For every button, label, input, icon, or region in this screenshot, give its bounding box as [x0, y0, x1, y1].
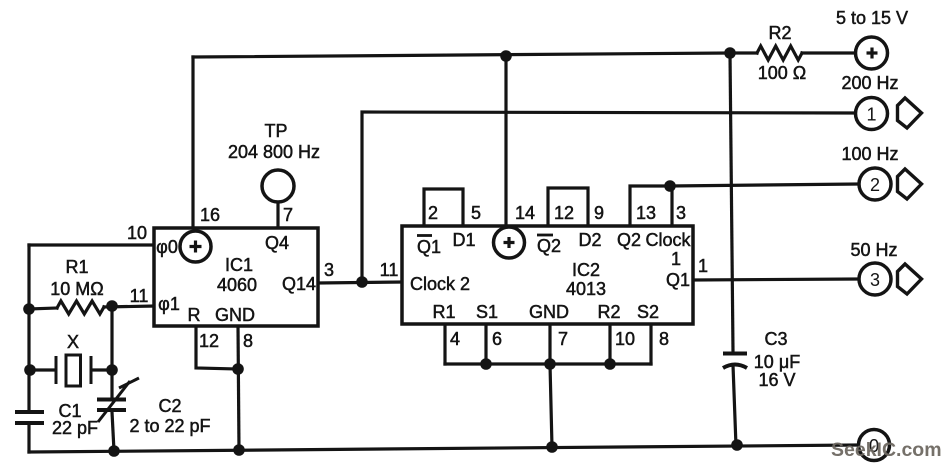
- svg-text:φ1: φ1: [158, 294, 180, 314]
- svg-text:14: 14: [515, 203, 535, 223]
- junction R1 left: [23, 303, 35, 315]
- svg-text:9: 9: [594, 203, 604, 223]
- svg-text:SeekIC.com: SeekIC.com: [831, 439, 942, 461]
- arrow output 2: [898, 169, 922, 199]
- junction R1 right: [106, 300, 118, 312]
- svg-text:11: 11: [380, 260, 399, 280]
- svg-text:R2: R2: [768, 23, 791, 43]
- IC2 plus terminal circle: [494, 227, 525, 258]
- svg-text:12: 12: [554, 203, 574, 223]
- wire IC2 pin10: [608, 324, 611, 364]
- svg-text:4: 4: [450, 329, 460, 349]
- wire IC1 pin12 to pin8: [196, 326, 238, 369]
- svg-text:50 Hz: 50 Hz: [850, 240, 897, 260]
- wire IC1 pin10: [29, 243, 154, 246]
- junction sub-bus pin7: [544, 358, 556, 370]
- wire Q1 output to 50Hz terminal 3: [693, 279, 858, 280]
- capacitor C3: [723, 354, 747, 369]
- svg-text:7: 7: [283, 205, 293, 225]
- svg-text:S2: S2: [637, 302, 659, 322]
- svg-text:12: 12: [199, 331, 219, 351]
- svg-text:R2: R2: [597, 302, 620, 322]
- crystal X: [56, 355, 91, 386]
- svg-text:5: 5: [471, 203, 481, 223]
- svg-text:C2: C2: [158, 396, 181, 416]
- wire feedback vertical upper (R1 to C2): [110, 306, 113, 397]
- op IC2 4013 box: [402, 226, 693, 324]
- svg-text:Q2: Q2: [537, 236, 561, 256]
- wire bottom ground bus: [29, 445, 858, 452]
- junction crystal left: [24, 364, 36, 376]
- wire IC2 loop pins 12-9: [548, 188, 588, 226]
- resistor R2: [757, 46, 802, 60]
- svg-text:GND: GND: [215, 305, 255, 325]
- wire R1 left lead: [29, 308, 57, 309]
- junction crystal right: [106, 364, 118, 376]
- junction pin12/pin8: [232, 363, 244, 375]
- wire IC2 pin7 to ground bus: [550, 364, 552, 447]
- wire IC2 loop pins 13-3: [630, 186, 672, 226]
- arrow output 3: [898, 264, 922, 294]
- svg-text:IC1: IC1: [225, 255, 253, 275]
- svg-text:16: 16: [200, 205, 220, 225]
- svg-text:D1: D1: [452, 230, 475, 250]
- svg-text:1: 1: [671, 249, 681, 269]
- output terminal 2: [859, 168, 891, 200]
- svg-text:IC2: IC2: [572, 260, 600, 280]
- svg-text:8: 8: [659, 329, 669, 349]
- svg-text:2: 2: [428, 203, 438, 223]
- junction supply/R2: [724, 47, 736, 59]
- svg-text:13: 13: [636, 203, 656, 223]
- svg-text:2 to 22 pF: 2 to 22 pF: [129, 416, 210, 436]
- wire IC2 pin6: [484, 324, 487, 364]
- svg-text:8: 8: [243, 331, 253, 351]
- svg-text:3: 3: [676, 203, 686, 223]
- svg-text:11: 11: [130, 286, 149, 306]
- svg-text:TP: TP: [264, 121, 287, 141]
- svg-text:X: X: [67, 332, 79, 352]
- wire IC1 pin16 vertical: [191, 57, 194, 229]
- svg-text:200 Hz: 200 Hz: [841, 73, 898, 93]
- svg-text:1: 1: [698, 256, 708, 276]
- svg-text:R1: R1: [65, 257, 88, 277]
- svg-text:4060: 4060: [217, 275, 257, 295]
- svg-text:204 800 Hz: 204 800 Hz: [228, 142, 320, 162]
- svg-text:1: 1: [866, 105, 876, 125]
- wire feedback vertical lower (C2 to bus): [112, 412, 114, 451]
- wire IC2 pin4: [443, 324, 446, 364]
- svg-text:Clock: Clock: [645, 230, 691, 250]
- svg-text:2: 2: [870, 175, 880, 195]
- wire Q14 to 200Hz terminal 1: [362, 112, 855, 282]
- wire IC1 pin8 ground vertical: [238, 326, 239, 450]
- svg-text:R: R: [188, 305, 201, 325]
- wire left vertical upper: [27, 245, 30, 410]
- svg-text:D2: D2: [578, 230, 601, 250]
- svg-text:Q14: Q14: [282, 274, 316, 294]
- junction sub-bus pin6: [480, 358, 492, 370]
- svg-text:Q1: Q1: [417, 237, 441, 257]
- svg-text:R1: R1: [432, 302, 455, 322]
- svg-text:Q4: Q4: [265, 233, 289, 253]
- test point TP circle: [262, 170, 294, 202]
- junction supply/pin14: [500, 50, 512, 62]
- junction 100Hz tap: [664, 180, 676, 192]
- wire R1 right lead to IC1 pin11: [104, 306, 154, 307]
- svg-text:C3: C3: [764, 329, 787, 349]
- svg-text:10 MΩ: 10 MΩ: [50, 279, 103, 299]
- wire IC2 pin8: [649, 324, 652, 364]
- output terminal 3: [859, 263, 891, 295]
- svg-text:3: 3: [870, 270, 880, 290]
- svg-text:GND: GND: [529, 302, 569, 322]
- wire IC2 loop pins 2-5: [424, 189, 463, 226]
- supply terminal plus circle: [856, 37, 888, 69]
- wire crystal right lead: [92, 368, 112, 371]
- ground terminal 0: [859, 430, 890, 461]
- svg-text:Q1: Q1: [666, 270, 690, 290]
- wire left vertical lower: [27, 425, 30, 452]
- capacitor C2 (variable): [97, 378, 139, 422]
- svg-text:Q2: Q2: [617, 230, 641, 250]
- svg-text:7: 7: [558, 329, 568, 349]
- capacitor C1: [15, 412, 44, 423]
- svg-text:10: 10: [615, 329, 635, 349]
- output terminal 1: [856, 98, 888, 130]
- wire IC2 pin7: [548, 324, 551, 364]
- svg-text:S1: S1: [476, 302, 498, 322]
- wire TP to IC1 pin7: [276, 202, 279, 228]
- IC1 plus terminal circle: [180, 231, 211, 262]
- svg-text:φ0: φ0: [156, 237, 178, 257]
- wire supply vertical lower (C3 to ground bus): [733, 365, 736, 446]
- op IC1 4060 box: [154, 228, 318, 326]
- wire crystal left lead: [30, 368, 54, 371]
- wire IC2 pin14 vertical: [504, 56, 507, 230]
- junction bus IC1 gnd: [233, 444, 245, 456]
- svg-text:6: 6: [492, 329, 502, 349]
- svg-text:3: 3: [324, 260, 334, 280]
- wire top supply rail: [193, 53, 730, 57]
- svg-text:100 Ω: 100 Ω: [758, 63, 807, 83]
- svg-text:100 Hz: 100 Hz: [841, 144, 898, 164]
- wire R2 right lead to supply terminal: [802, 51, 855, 54]
- junction Q14 node: [356, 276, 368, 288]
- svg-text:5 to 15 V: 5 to 15 V: [836, 8, 908, 28]
- wire R2 left lead: [730, 51, 757, 54]
- wire supply vertical upper (to C3): [730, 53, 733, 351]
- wire 100Hz to terminal 2: [670, 184, 858, 186]
- svg-text:10 μF: 10 μF: [754, 352, 800, 372]
- svg-text:22 pF: 22 pF: [52, 418, 98, 438]
- junction bus C2: [108, 445, 120, 457]
- junction bus IC2 gnd: [546, 441, 558, 453]
- svg-text:4013: 4013: [566, 279, 606, 299]
- resistor R1: [57, 301, 104, 314]
- svg-text:Clock 2: Clock 2: [410, 274, 470, 294]
- junction bus C3: [731, 439, 743, 451]
- wire IC1 Q14 pin3 to IC2 pin11: [318, 282, 402, 283]
- arrow output 1: [898, 98, 922, 128]
- svg-text:10: 10: [127, 223, 147, 243]
- svg-text:16 V: 16 V: [758, 370, 795, 390]
- junction sub-bus pin10: [604, 358, 616, 370]
- wire IC2 reset/set sub-bus: [445, 362, 651, 365]
